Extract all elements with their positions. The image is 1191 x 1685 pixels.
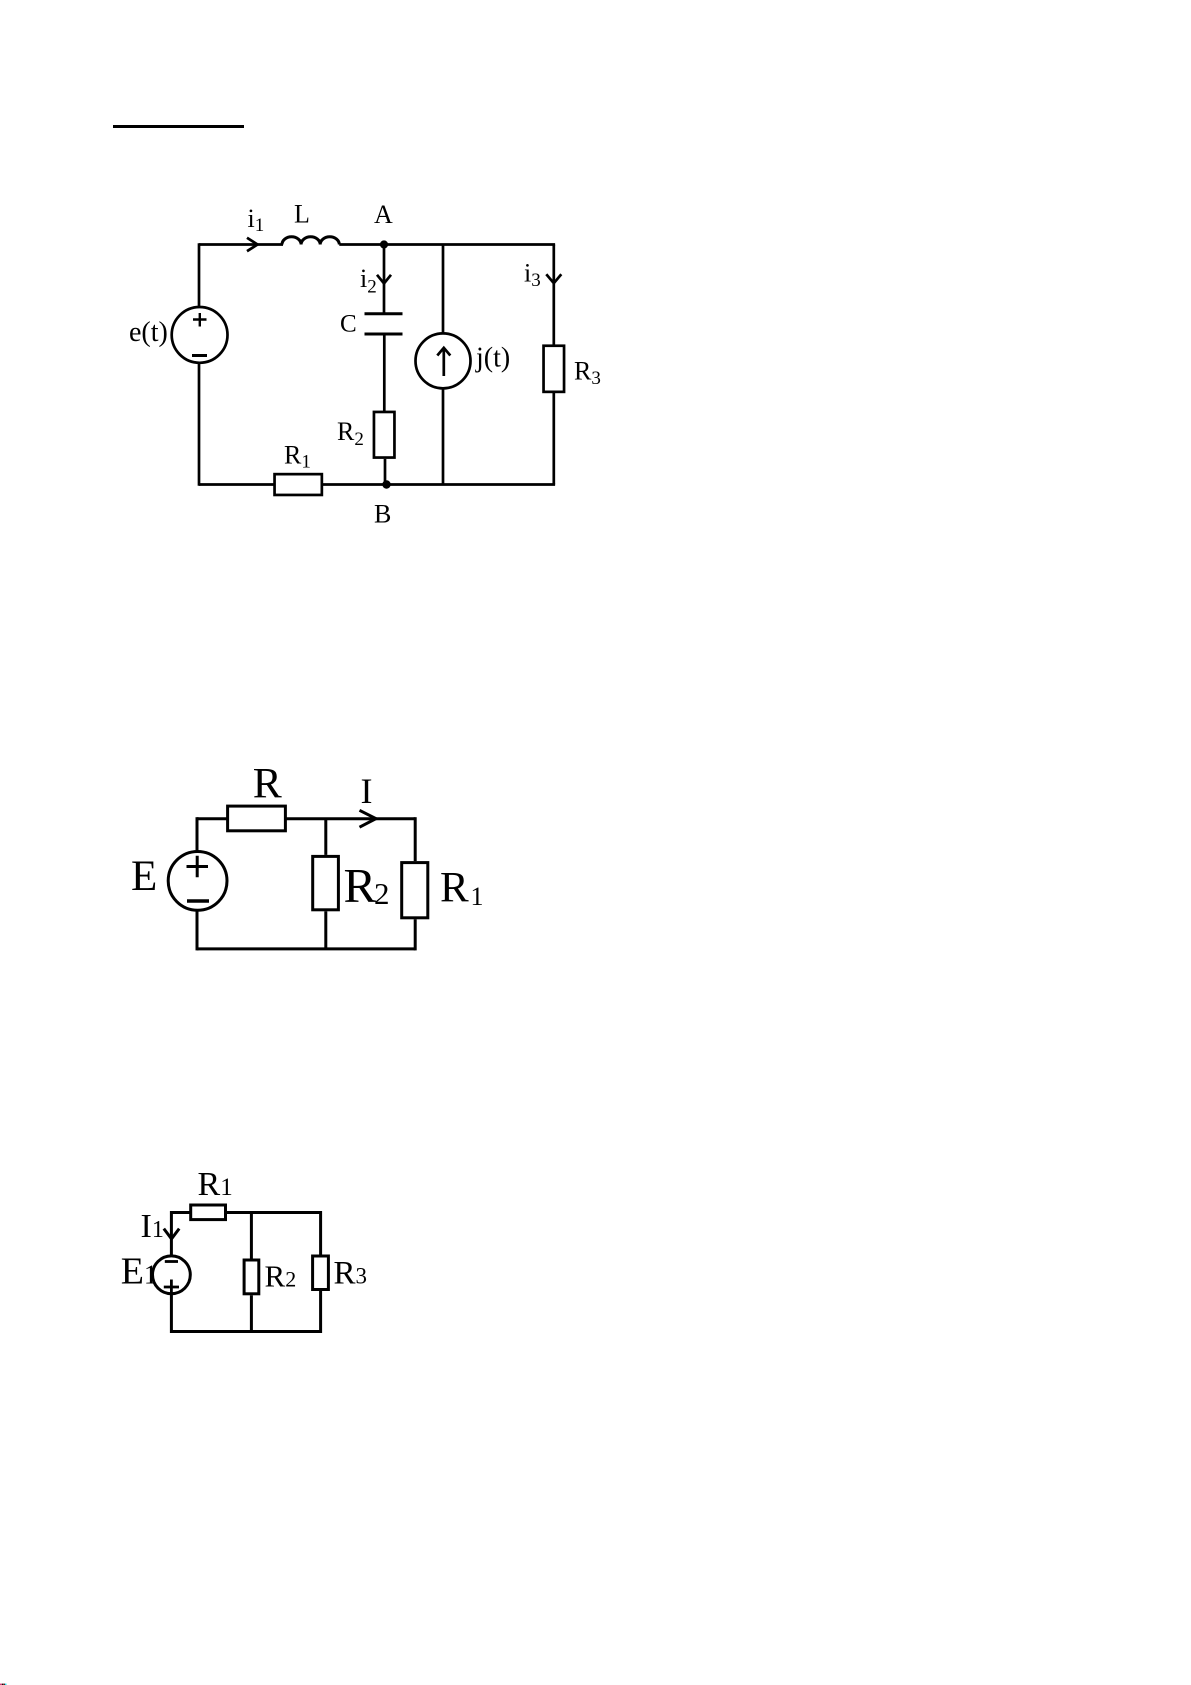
current arrow I1 (C3): [164, 1229, 179, 1239]
svg-text:i2: i2: [360, 264, 377, 298]
resistor R2 (C2): [313, 856, 339, 909]
svg-text:I: I: [361, 771, 373, 811]
svg-text:I1: I1: [141, 1208, 164, 1245]
resistor R2 (C3): [244, 1260, 259, 1294]
wire C3 R3 branch lower: [319, 1291, 322, 1333]
page corner artifact: [0, 1684, 7, 1685]
svg-text:B: B: [374, 500, 391, 529]
svg-text:e(t): e(t): [129, 317, 168, 348]
wire C2 R2 branch lower: [324, 911, 327, 949]
resistor R1 (C3): [191, 1205, 226, 1220]
wire C3 left lower: [170, 1294, 173, 1333]
voltage source e(t) circle: [172, 307, 228, 363]
wire C1 R3 branch upper: [552, 245, 555, 345]
node A dot: [380, 240, 388, 248]
wire C2 R1 branch upper: [414, 817, 417, 861]
e(t) plus: [193, 313, 207, 327]
wire C1 R3 branch lower: [552, 393, 555, 485]
svg-text:E: E: [131, 853, 157, 900]
current arrow i1: [247, 238, 258, 252]
wire C1 capacitor branch upper: [383, 245, 386, 314]
voltage source E1 circle: [153, 1256, 191, 1294]
svg-text:E1: E1: [121, 1251, 158, 1293]
voltage source E circle: [168, 852, 227, 911]
resistor R1 (C1): [275, 474, 322, 495]
wire C2 R1 branch lower: [414, 919, 417, 950]
wire C1 left lower: [198, 363, 201, 486]
svg-text:L: L: [294, 200, 310, 229]
wire C1 left upper: [198, 243, 201, 307]
wire C3 left upper: [170, 1211, 173, 1256]
wire C1 top-left (source corner to inductor): [199, 243, 283, 246]
resistor R (C2): [228, 806, 286, 831]
wire C1 j(t) branch upper: [442, 245, 445, 334]
E plus: [187, 856, 209, 877]
wire C3 R2 branch lower: [250, 1295, 253, 1331]
wire C2 left lower: [196, 911, 199, 951]
resistor R3 (C1): [544, 346, 565, 392]
current source j(t) arrow: [437, 348, 450, 376]
resistor R3 (C3): [313, 1256, 329, 1290]
svg-text:R2: R2: [344, 858, 390, 913]
wire C2 left upper: [196, 817, 199, 852]
wire C2 bottom: [197, 947, 415, 950]
svg-text:R3: R3: [334, 1256, 368, 1292]
current arrow i2: [377, 275, 391, 284]
resistor R1 (C2): [402, 863, 428, 918]
current source j(t) circle: [416, 333, 471, 388]
capacitor C top plate: [365, 312, 403, 315]
svg-text:R2: R2: [337, 417, 364, 450]
E1 minus: [165, 1260, 178, 1263]
e(t) minus: [192, 354, 207, 357]
wire C1 bottom: [199, 483, 555, 486]
svg-text:R: R: [253, 760, 282, 808]
capacitor C bottom plate: [365, 333, 403, 336]
resistor R2 (C1): [374, 412, 395, 458]
wire C1 capacitor to R2: [383, 334, 386, 411]
wire C3 R2 branch upper: [250, 1213, 253, 1259]
svg-text:i3: i3: [524, 259, 541, 292]
wire C1 j(t) branch lower: [442, 389, 445, 485]
wire C3 bottom: [171, 1330, 320, 1333]
E minus: [187, 899, 209, 902]
wire C2 R2 branch upper: [324, 819, 327, 855]
svg-text:R1: R1: [284, 441, 311, 473]
wire C2 top: [197, 817, 415, 820]
inductor L: [282, 237, 339, 245]
svg-text:C: C: [340, 311, 357, 338]
svg-text:j(t): j(t): [475, 343, 510, 374]
wire C1 R2 to node B: [384, 459, 387, 485]
svg-text:R3: R3: [574, 357, 601, 390]
svg-text:R2: R2: [265, 1259, 297, 1294]
current arrow i3: [546, 274, 561, 283]
wire C1 top-right (inductor to R3 corner): [339, 243, 555, 246]
node B dot: [382, 480, 390, 488]
wire C3 top: [171, 1211, 320, 1214]
title underline: [113, 125, 244, 128]
current arrow I (C2): [360, 810, 377, 827]
svg-text:R1: R1: [198, 1166, 233, 1203]
svg-text:A: A: [374, 200, 393, 229]
wire C3 R3 branch upper: [319, 1211, 322, 1255]
svg-text:i1: i1: [248, 204, 265, 236]
E1 plus: [164, 1280, 179, 1295]
svg-text:R1: R1: [440, 865, 484, 912]
